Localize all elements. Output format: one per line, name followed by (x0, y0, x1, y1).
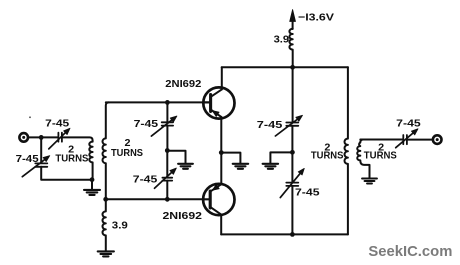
svg-text:TURNS: TURNS (55, 154, 88, 165)
transistor Q1 2N1692 (203, 87, 235, 118)
ground G4 (263, 164, 279, 169)
capacitor C3 7-45 (mid upper) (151, 116, 177, 136)
label 2N1692 (Q2) (163, 210, 203, 222)
wire bottom rail (221, 233, 348, 235)
wire Q1 collector (221, 67, 223, 89)
wire C6 to bottom rail (291, 186, 293, 235)
capacitor C2 7-45 (input shunt) (22, 156, 50, 177)
label 3.9 (bias) (112, 220, 128, 232)
wire mid branch upper (166, 102, 168, 121)
label 2 (T2 secondary) (378, 141, 384, 153)
wire right branch upper (292, 67, 294, 122)
ground G6 (emitters) (233, 164, 249, 169)
svg-text:TURNS: TURNS (111, 148, 143, 159)
transformer T1 secondary 2 TURNS (102, 102, 108, 199)
label 7-45 (C7) (396, 118, 421, 130)
svg-text:−I3.6V: −I3.6V (298, 12, 334, 24)
label -13.6V (298, 12, 334, 24)
label 2 (T2 primary) (324, 141, 330, 153)
power arrow -13.6V (290, 10, 296, 30)
ground G5 (output) (362, 179, 377, 184)
wire lower base line (106, 198, 203, 200)
label 2 (T1 primary) (68, 144, 74, 156)
svg-text:7-45: 7-45 (257, 119, 283, 131)
label 7-45 (C6) (295, 187, 320, 199)
svg-text:2NI692: 2NI692 (165, 78, 201, 90)
wire mid node to C6 (291, 152, 293, 182)
capacitor C4 7-45 (mid lower) (155, 168, 177, 188)
wire ground stub mid-left (167, 151, 185, 164)
transformer T1 primary 2 TURNS (89, 142, 92, 180)
capacitor C1 7-45 (input series) (49, 128, 70, 149)
wire input (28, 136, 58, 138)
label TURNS (T2 secondary) (364, 151, 397, 162)
wire T1 ground stub (91, 180, 93, 190)
svg-text:TURNS: TURNS (311, 151, 344, 162)
wire left shunt branch (40, 137, 42, 163)
wire C4 to lower base (166, 181, 168, 200)
wire upper base line (106, 101, 203, 103)
junction supply-rail (290, 65, 295, 70)
junction upper base node (165, 100, 170, 105)
transformer T2 primary 2 TURNS (344, 67, 347, 234)
choke 3.9 (bias) (103, 199, 106, 250)
junction bottom rail (290, 232, 295, 237)
capacitor C5 7-45 (right upper) (275, 115, 302, 136)
watermark SeekIC.com (368, 243, 452, 260)
input terminal (19, 133, 28, 142)
wire C7 to output terminal (407, 139, 432, 141)
wire emitters (220, 117, 222, 184)
label 7-45 (C5) (257, 119, 283, 131)
junction T1 ground node (90, 177, 95, 182)
label 7-45 (C3) (134, 118, 159, 130)
choke 3.9 (supply) (289, 29, 292, 66)
svg-text:7-45: 7-45 (396, 118, 421, 130)
wire ground stub emitters (221, 153, 240, 164)
svg-text:7-45: 7-45 (134, 118, 159, 130)
svg-text:7-45: 7-45 (45, 117, 69, 129)
ground G3 (bias) (98, 251, 114, 256)
capacitor C7 7-45 (output series) (396, 129, 418, 148)
svg-text:3.9: 3.9 (274, 33, 290, 45)
wire mid-left to C4 (166, 151, 168, 178)
junction lower base mid node (165, 197, 170, 202)
junction mid-left node (165, 148, 170, 153)
wire ground stub G4 (270, 152, 292, 163)
stray mark (29, 116, 31, 118)
ground G2 (mid-left) (178, 164, 193, 169)
wire top rail (222, 66, 348, 68)
svg-text:3.9: 3.9 (112, 220, 128, 232)
wire C5 to mid node (291, 126, 293, 153)
ground G1 (input tank) (84, 190, 100, 195)
transformer T2 secondary 2 TURNS (357, 140, 369, 178)
label 2N1692 (Q1) (165, 78, 201, 90)
capacitor C6 7-45 (right lower) (280, 168, 304, 197)
junction emitter node (219, 150, 224, 155)
transistor Q2 2N1692 (203, 184, 235, 215)
label TURNS (T1 secondary) (111, 148, 143, 159)
label TURNS (T1 primary) (55, 154, 88, 165)
svg-text:SeekIC.com: SeekIC.com (368, 243, 452, 260)
junction input node (39, 135, 44, 140)
label 7-45 (C2) (16, 153, 39, 165)
wire C2 to tank bottom (41, 167, 92, 180)
label 2 (T1 secondary) (125, 137, 131, 149)
svg-text:TURNS: TURNS (364, 151, 397, 162)
label 3.9 (choke) (274, 33, 290, 45)
wire Q2 collector (220, 215, 222, 235)
svg-text:2NI692: 2NI692 (163, 210, 203, 222)
wire T2 to C7 (360, 139, 402, 141)
output terminal (433, 135, 442, 144)
label TURNS (T2 primary) (311, 151, 344, 162)
label 7-45 (C1) (45, 117, 69, 129)
wire C3 to mid-left node (166, 126, 168, 151)
svg-text:7-45: 7-45 (133, 173, 158, 185)
junction right-mid (290, 150, 295, 155)
wire C1 to T1 (62, 137, 93, 141)
junction choke top node (103, 197, 108, 202)
svg-text:7-45: 7-45 (16, 153, 39, 165)
label 7-45 (C4) (133, 173, 158, 185)
svg-text:7-45: 7-45 (295, 187, 320, 199)
